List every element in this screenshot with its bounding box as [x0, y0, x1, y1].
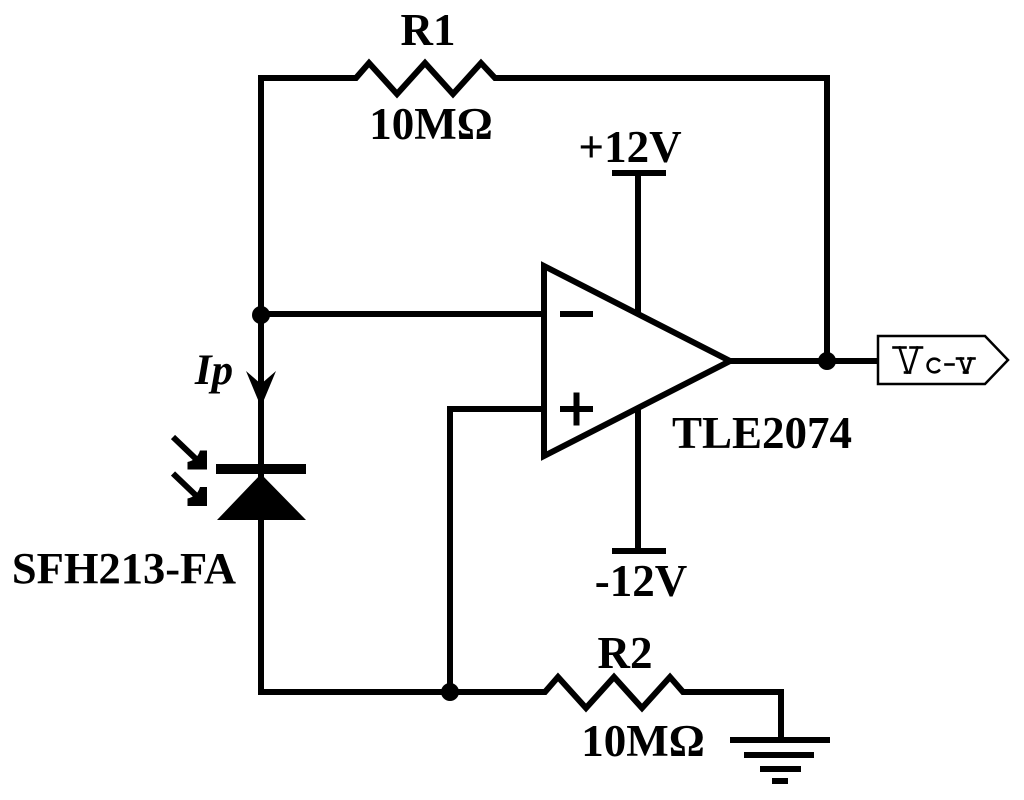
svg-text:10MΩ: 10MΩ	[581, 716, 705, 766]
svg-text:R2: R2	[598, 628, 653, 678]
svg-text:+12V: +12V	[578, 122, 681, 172]
svg-text:-12V: -12V	[595, 556, 687, 606]
svg-text:Ip: Ip	[194, 347, 233, 394]
svg-text:10MΩ: 10MΩ	[369, 99, 493, 149]
svg-text:TLE2074: TLE2074	[672, 408, 852, 458]
svg-text:R1: R1	[401, 5, 456, 55]
svg-text:SFH213-FA: SFH213-FA	[12, 543, 236, 593]
